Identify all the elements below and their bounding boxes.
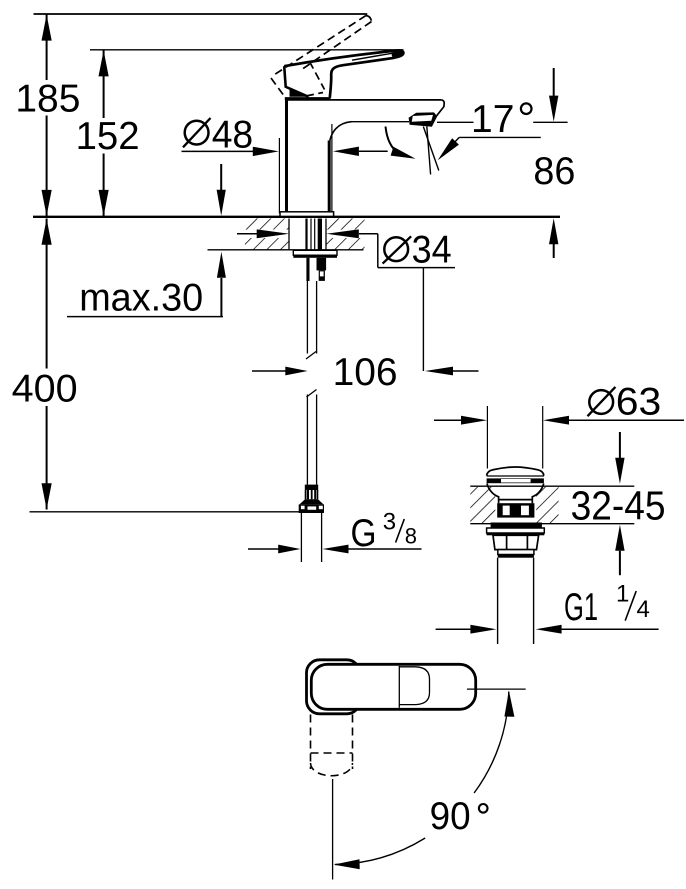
extension line right of body [331,124,333,212]
svg-text:32-45: 32-45 [571,483,666,529]
G 3/8 connector [299,485,324,562]
dim 185 vertical line [42,14,52,217]
svg-text:106: 106 [333,351,398,394]
dim 152 vertical line [99,50,109,217]
svg-text:86: 86 [533,150,575,193]
svg-text:max.30: max.30 [79,277,203,320]
drain: dim D63 [434,406,684,469]
top view leader line [467,688,526,690]
extension line left of body [278,138,280,213]
dim max.30 [67,164,226,317]
drain assembly [487,467,545,644]
svg-text:90: 90 [430,795,471,838]
svg-text:34: 34 [412,229,452,272]
dimension line 152 top reference [90,49,404,51]
dimension line 185 top reference [34,13,368,15]
top view centerline [332,779,334,880]
dim 86 extension and arrows [437,68,568,258]
svg-text:400: 400 [12,368,78,411]
faucet shank through counter [305,219,322,250]
faucet handle dashed raised position [271,16,372,97]
mounting washer and nut under counter [293,250,337,281]
label 17 deg with leader [438,98,541,160]
90 deg arc [474,692,509,793]
top view base [307,660,360,714]
svg-text:48: 48 [212,114,254,157]
svg-text:63: 63 [616,381,662,424]
svg-text:1: 1 [616,581,629,608]
label G 3/8 [351,508,418,555]
svg-text:185: 185 [15,78,80,121]
faucet base plate [280,212,334,217]
bottom reference line 400 [30,511,301,513]
top view grip joint [398,666,400,708]
dim D34 [237,229,455,371]
supply pipe upper [306,281,317,485]
aerator [409,112,438,126]
svg-text:17: 17 [471,98,514,141]
dim G1 1/4 [436,625,659,634]
svg-text:G: G [351,512,377,555]
drain slab [470,486,634,524]
top view dashed spout [311,715,353,776]
faucet body and spout [287,100,445,212]
label G1 1/4 [564,581,650,629]
svg-text:4: 4 [637,596,650,623]
label D48 with leader arrow [182,114,388,157]
dim 106 [252,367,479,376]
svg-text:G1: G1 [564,586,598,629]
svg-text:3: 3 [383,508,396,535]
faucet cap line [285,97,331,100]
label D34 [384,237,408,261]
countertop [33,217,560,250]
svg-text:152: 152 [76,115,140,158]
dim G 3/8 [248,545,422,554]
dim 400 vertical [42,219,52,510]
stream arc arrow [386,127,400,154]
stream angle lines [427,126,431,174]
dim 32-45 [615,432,624,575]
faucet handle solid [284,50,403,97]
label D63 [589,390,613,414]
handle shadow wedge [290,89,309,97]
svg-text:8: 8 [405,524,417,549]
top view handle [311,664,475,709]
